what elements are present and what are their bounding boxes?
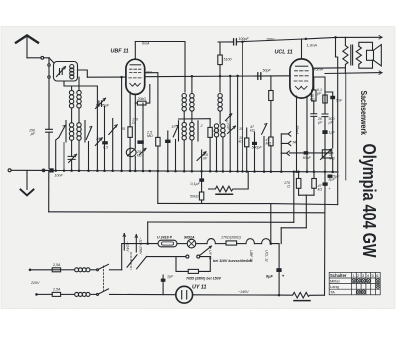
capacitor 8uF black top	[323, 182, 328, 185]
selector arrow 110-150V	[135, 235, 137, 253]
resistor 170(390) heater	[226, 241, 237, 245]
capacitor chain 0.1uF / resistor 50k below bus	[199, 178, 204, 181]
ballast tube U2418P	[158, 240, 177, 247]
bus junction dots	[50, 169, 334, 173]
tube UBF11 envelope	[126, 59, 145, 94]
wire coil mids	[72, 108, 79, 123]
capacitor plates on 325	[322, 114, 328, 117]
wire top-right feed line	[306, 37, 382, 39]
resistor UBF screen vertical	[128, 127, 132, 138]
wire right long vertical HT	[324, 95, 327, 295]
variable capacitor circle element	[134, 103, 136, 148]
wire anode supply line with 100pF	[218, 39, 306, 42]
row P2	[147, 256, 176, 258]
node heater junction	[270, 242, 273, 245]
switch mains bottom	[97, 293, 99, 295]
wire sachsenwerk border vertical	[344, 68, 346, 73]
trimmer capacitor at IF1 bottom	[68, 156, 75, 159]
wire H119 link	[179, 118, 211, 120]
rail R1	[158, 203, 338, 204]
UBF11 grid dashes	[130, 68, 141, 70]
antenna	[16, 35, 38, 42]
capacitor 5nF black	[330, 96, 335, 99]
grid line H77	[87, 76, 126, 78]
variable capacitor trim left	[95, 138, 102, 146]
heater UY11 arc	[207, 239, 215, 244]
wire bus drop to lower rail	[48, 170, 50, 211]
capacitor 5uF black on bus	[328, 175, 333, 178]
resistor 51k top	[269, 91, 273, 101]
IF transformer 2 secondary	[182, 122, 186, 126]
capacitor 1uF black on 325	[322, 130, 327, 134]
capacitor 500pF black	[252, 142, 257, 145]
resistor zigzag bottom	[279, 292, 324, 298]
output transformer secondary zigzag	[356, 46, 361, 64]
resistor zigzag with tap	[209, 171, 249, 191]
switch short 110V diagonal	[200, 246, 212, 255]
mains terminal top	[29, 269, 32, 272]
switch arrow near circle	[140, 148, 147, 154]
UCL11 plate	[296, 65, 308, 67]
rail R3	[148, 221, 294, 223]
transformer core bars	[351, 45, 353, 65]
wire coil bottoms to bus	[72, 140, 79, 171]
wire extra drops to bus	[242, 42, 244, 172]
rail R4 heater return	[281, 227, 306, 229]
wire diode plate right	[145, 73, 158, 138]
heater UCL arc	[262, 239, 271, 244]
resistor 50k under tube	[312, 90, 316, 101]
IF transformer 3 primary	[218, 94, 222, 98]
table X marks	[352, 279, 356, 283]
table switch positions	[329, 272, 380, 294]
secondary loop box	[359, 42, 373, 68]
TA input forks	[281, 132, 291, 136]
node bus circle	[42, 169, 45, 172]
capacitor 100pF	[234, 39, 237, 45]
capacitor black at 167	[165, 140, 170, 143]
tube UCL11 envelope	[290, 59, 313, 98]
shield box band filter 2	[179, 121, 199, 141]
capacitor 50nF black	[304, 151, 309, 154]
wire pin drop	[142, 103, 144, 171]
trimmer 15-45pF	[99, 101, 102, 106]
capacitor plates on 313.8	[311, 114, 317, 117]
switch band 2	[86, 127, 92, 140]
wire IF2 tops and bottoms	[184, 76, 192, 122]
UBF11 cathode chevrons	[130, 83, 140, 86]
capacitor small black	[102, 141, 108, 144]
voltage selector levers	[127, 255, 137, 267]
trimmer capacitor in coupler	[60, 69, 63, 75]
wire resistor bottoms joined	[299, 194, 314, 196]
wire UBF left shield drop	[121, 77, 123, 171]
IF transformer 2 primary	[182, 94, 186, 98]
main ground bus	[11, 169, 49, 171]
ground	[26, 170, 28, 189]
selector arrow 124V	[123, 234, 125, 251]
output transformer primary zigzag	[343, 37, 348, 68]
wire IF3 links	[217, 111, 223, 171]
resistor 47k vertical	[269, 137, 273, 146]
fuse 2,5A bottom	[52, 292, 60, 296]
resistor 47k under UCL	[312, 179, 317, 189]
wire antenna drop with spark-gap contacts	[48, 58, 50, 64]
resistor under 246	[245, 138, 249, 147]
mains terminal bottom	[35, 293, 38, 296]
wire antenna to coupler	[27, 57, 41, 59]
shield box band filter 1	[66, 121, 85, 143]
wire R3 right riser	[293, 172, 295, 223]
node bus left terminal	[8, 169, 11, 172]
wire UCL11 top lead	[301, 39, 303, 59]
rail R2	[49, 212, 325, 213]
wire coil tops	[72, 77, 79, 90]
capacitor 1uF	[161, 279, 166, 282]
resistor 170 under UCL	[296, 179, 301, 189]
rail R0	[158, 202, 271, 204]
switch mains top	[97, 269, 99, 271]
tube UY11	[176, 286, 193, 303]
trimmer arrows IF3	[226, 114, 232, 121]
switch arrow mid	[262, 124, 267, 135]
capacitor 150pF	[46, 129, 53, 132]
node dots on H77/H42	[229, 75, 232, 78]
fuse 2,5A top	[52, 268, 60, 272]
wire UBF11 anode top lead	[134, 42, 136, 60]
switch band IF2	[173, 125, 178, 137]
capacitor 50pF on grid line	[258, 73, 261, 80]
wire trimmer drops	[97, 86, 104, 171]
variable arrow at 201 above bus	[201, 150, 203, 171]
resistor 5100	[219, 42, 221, 55]
fuse 7655	[188, 269, 198, 273]
speaker	[367, 50, 374, 60]
resistor on HT top	[323, 95, 327, 103]
choke top	[75, 268, 79, 272]
resistor 2,5MOhm	[156, 137, 160, 146]
wire drops to bus right of IF3	[230, 76, 237, 171]
IF transformer 3 secondary	[214, 124, 218, 128]
antenna input unit box	[54, 62, 78, 82]
node dot	[305, 38, 308, 41]
wire coupler to RF line	[78, 70, 88, 77]
wire AF line to volume pot	[290, 152, 333, 154]
UBF11 plate	[130, 64, 141, 66]
dial lamp	[187, 239, 196, 248]
wire R3 left drop to selector	[147, 222, 149, 244]
variable capacitor tuning gang 1	[112, 119, 114, 171]
wire right vertical from top to rail R1	[336, 37, 338, 204]
potentiometer	[322, 150, 332, 158]
IF transformer 1 primary coil	[69, 90, 73, 94]
wire R4 risers	[305, 195, 307, 228]
resistor 20kOhm horizontal	[137, 101, 146, 105]
wire R0 left riser	[157, 171, 159, 203]
wire riser to selector	[122, 244, 158, 270]
parallel fuse loop	[176, 257, 210, 272]
wire R0 drop to heater chain	[270, 204, 272, 244]
wire coupler bottom down	[64, 81, 97, 86]
wire UCL anode right	[313, 67, 345, 69]
heater UBF arc	[246, 239, 254, 244]
capacitor 10nF (blocking)	[49, 168, 53, 172]
wire anode line to IF2	[135, 42, 185, 93]
coil in coupler	[70, 65, 74, 69]
switch gang dashed link	[103, 266, 105, 291]
resistor right of IF2	[208, 127, 212, 137]
choke bottom	[75, 292, 79, 296]
IF transformer 1 secondary coil	[69, 123, 73, 127]
switch band 1	[59, 126, 65, 138]
wire UCL pins to bus	[297, 96, 308, 172]
UCL11 cathode chevrons	[295, 86, 307, 89]
capacitor 8uF lower black	[276, 268, 281, 272]
node rectifier out	[278, 294, 281, 297]
wire small top links	[314, 77, 333, 92]
capacitor small black under 20k	[137, 140, 143, 144]
small value labels	[29, 37, 343, 294]
node antenna connector	[41, 56, 44, 59]
wire speaker frame bottom	[325, 72, 382, 75]
UCL11 grid dashes	[295, 70, 309, 72]
